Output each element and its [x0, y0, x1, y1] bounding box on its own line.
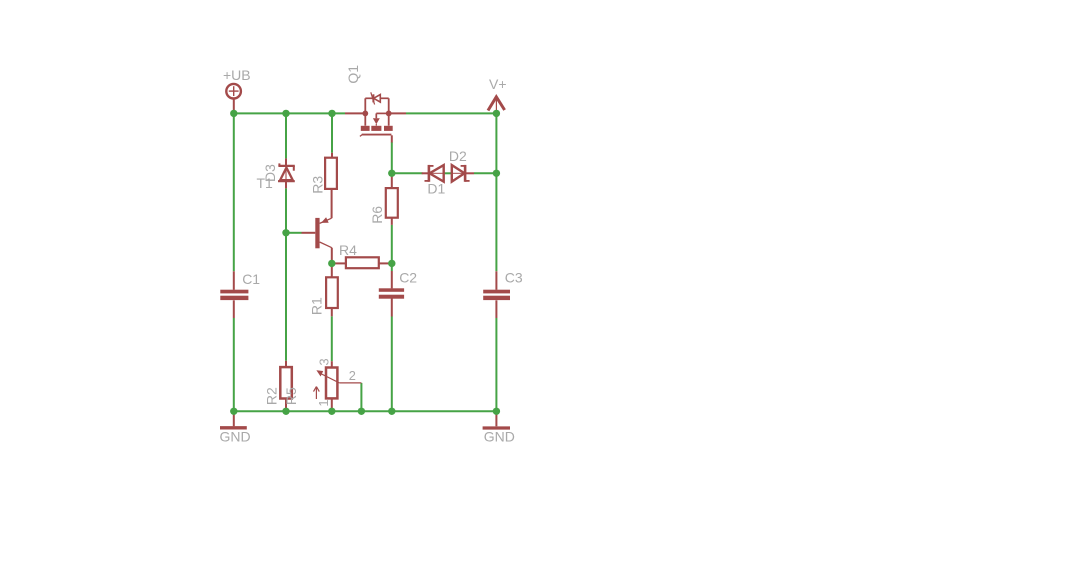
svg-text:R5: R5	[283, 387, 299, 405]
svg-text:1: 1	[316, 399, 331, 406]
svg-text:C2: C2	[399, 270, 417, 286]
svg-text:R4: R4	[339, 242, 357, 258]
svg-text:3: 3	[317, 358, 332, 365]
svg-text:D1: D1	[427, 181, 445, 197]
svg-text:R1: R1	[308, 297, 324, 315]
svg-text:Q1: Q1	[345, 65, 361, 84]
svg-text:R3: R3	[309, 176, 325, 194]
svg-text:T1: T1	[257, 175, 274, 191]
svg-text:C3: C3	[505, 270, 523, 286]
svg-text:GND: GND	[484, 428, 515, 444]
svg-text:V+: V+	[489, 76, 507, 92]
svg-text:+UB: +UB	[223, 67, 251, 83]
svg-text:2: 2	[349, 368, 356, 383]
svg-text:GND: GND	[220, 428, 251, 444]
svg-text:D2: D2	[449, 148, 467, 164]
svg-text:R2: R2	[264, 387, 280, 405]
svg-text:R6: R6	[369, 206, 385, 224]
svg-text:C1: C1	[242, 271, 260, 287]
